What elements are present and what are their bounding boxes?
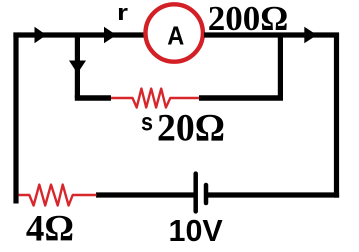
current arrow A1 <box>35 27 47 43</box>
shunt branch right horizontal wire <box>199 95 283 101</box>
svg-text:200Ω: 200Ω <box>208 0 289 38</box>
ammeter A <box>146 4 203 61</box>
shunt branch right vertical wire <box>278 33 283 101</box>
resistor 4Ω zigzag <box>19 185 97 206</box>
current arrow A4 <box>304 27 317 43</box>
svg-text:4Ω: 4Ω <box>26 208 74 249</box>
svg-text:s: s <box>141 109 153 137</box>
battery positive plate (long) <box>193 174 198 212</box>
resistor s (shunt) zigzag <box>111 89 200 108</box>
current arrow A3 (down) <box>69 61 86 74</box>
battery negative plate (short) <box>204 185 209 203</box>
wire bottom left black segment <box>96 192 194 197</box>
current arrow A2 <box>104 27 116 43</box>
svg-text:10V: 10V <box>169 214 224 248</box>
wire top right segment <box>204 32 339 37</box>
svg-text:A: A <box>167 20 184 50</box>
wire left vertical <box>13 33 18 204</box>
wire bottom right segment <box>208 192 339 197</box>
shunt branch vertical wire <box>75 33 80 98</box>
wire top left segment <box>13 32 145 37</box>
wire right vertical <box>334 33 339 198</box>
svg-text:r: r <box>117 0 129 25</box>
svg-text:20Ω: 20Ω <box>157 106 225 150</box>
shunt branch left horizontal wire <box>75 95 111 101</box>
